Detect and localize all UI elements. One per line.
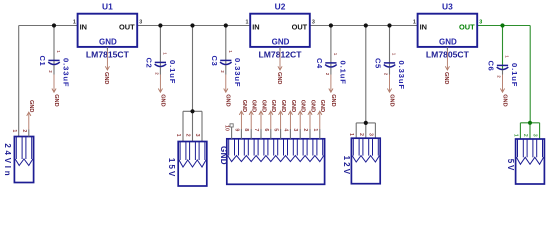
svg-text:GND: GND: [280, 100, 286, 112]
svg-text:10: 10: [224, 125, 230, 131]
pin 1 label 24VIn connector: [11, 129, 17, 132]
pin 1 label C1: [56, 50, 61, 53]
pin 1 label C6: [505, 55, 510, 58]
node C4 junction: [329, 23, 333, 27]
svg-text:IN: IN: [80, 23, 87, 32]
op-amp-style regulator U3 LM7805CT: [418, 2, 478, 60]
svg-text:GND: GND: [319, 100, 325, 112]
pin 8 label GND connector: [243, 128, 249, 131]
pin 2 label 24VIn connector: [21, 129, 27, 132]
pin 2 stub C6: [502, 70, 504, 75]
wire 15V conn riser: [192, 26, 194, 112]
pin 6 label GND connector: [263, 128, 269, 131]
svg-text:GND: GND: [290, 100, 296, 112]
pin 7 label GND connector: [253, 128, 259, 131]
svg-text:GND: GND: [300, 100, 306, 112]
ground net label GND at C6: [500, 75, 507, 107]
ground net label GND at C1: [52, 75, 59, 107]
wire 5V rail U3 out (green): [477, 25, 530, 27]
pin 1 label GND connector: [312, 128, 318, 131]
pin 2 label 12V connector: [358, 133, 364, 136]
pin 2 label GND connector: [302, 128, 308, 131]
pin 10 label GND connector: [224, 125, 230, 131]
connector GND header: [219, 139, 325, 185]
wire 15V conn pin stubs: [183, 111, 202, 141]
pin 6 stub GND connector: [270, 129, 272, 139]
pin 3 label U1: [139, 20, 142, 26]
wire C4 riser: [330, 26, 332, 67]
ground net label GND at GND connector pin 1: [318, 100, 326, 129]
pin 9 stub GND connector: [240, 129, 242, 139]
svg-text:3: 3: [479, 20, 482, 26]
svg-text:U3: U3: [442, 2, 453, 12]
svg-text:1: 1: [312, 128, 318, 131]
ground net label GND at GND connector pin 8: [249, 100, 257, 129]
svg-text:GND: GND: [219, 146, 228, 165]
pin 1 label U3: [413, 20, 416, 26]
pin 3 label 12V connector: [367, 133, 373, 136]
svg-text:GND: GND: [103, 72, 109, 84]
wire 12V conn pin stubs: [356, 123, 375, 138]
svg-text:0.33uF: 0.33uF: [397, 61, 406, 90]
pin 8 stub GND connector: [250, 129, 252, 139]
ground net label GND at C3: [224, 75, 231, 107]
node C2 junction: [158, 23, 162, 27]
ground net label GND at C5: [387, 75, 394, 107]
pin 3 label GND connector: [292, 128, 298, 131]
node 15V bus junction: [190, 109, 194, 113]
svg-text:0.33uF: 0.33uF: [61, 58, 70, 87]
svg-text:GND: GND: [53, 94, 59, 106]
pin 4 stub GND connector: [289, 129, 291, 139]
svg-text:9: 9: [233, 128, 239, 131]
svg-text:0.33uF: 0.33uF: [233, 58, 242, 87]
pin 1 label C4: [333, 53, 338, 56]
ground pin stub U2: [279, 47, 281, 51]
pin 5 stub GND connector: [280, 129, 282, 139]
pin 2 label C5: [384, 73, 389, 76]
svg-text:0.1uF: 0.1uF: [510, 63, 519, 87]
svg-text:OUT: OUT: [292, 23, 308, 32]
svg-text:3: 3: [367, 133, 373, 136]
wire 5V riser (green): [529, 26, 531, 123]
svg-text:1: 1: [512, 134, 518, 137]
ground net label GND at U1: [103, 51, 109, 85]
svg-text:1: 1: [348, 133, 354, 136]
pin 1 label C2: [162, 52, 167, 55]
node C6 junction (green): [500, 23, 504, 27]
svg-text:2: 2: [522, 134, 528, 137]
ground pin stub U1: [106, 47, 108, 51]
svg-text:7: 7: [253, 128, 259, 131]
svg-text:GND: GND: [439, 37, 457, 46]
svg-text:U2: U2: [275, 2, 286, 12]
svg-text:8: 8: [243, 128, 249, 131]
capacitor C1 0.33uF: [38, 56, 70, 88]
pin 3 label U3: [479, 20, 482, 26]
capacitor C2 0.1uF: [145, 58, 177, 85]
pin 2 stub 24VIn connector: [28, 130, 30, 137]
connector 24VIn header: [3, 137, 33, 183]
svg-text:GND: GND: [251, 100, 257, 112]
node C5 junction: [387, 23, 391, 27]
svg-text:5: 5: [273, 128, 279, 131]
svg-text:C5: C5: [374, 58, 383, 69]
pin 5 label GND connector: [273, 128, 279, 131]
pin 1 stub GND connector: [319, 129, 321, 139]
svg-text:0.1uF: 0.1uF: [338, 61, 347, 85]
node C1 junction: [52, 23, 56, 27]
ground net label GND at U2: [276, 51, 282, 85]
svg-text:4: 4: [282, 128, 288, 131]
svg-text:5V: 5V: [506, 159, 515, 171]
pin 1 label U2: [246, 20, 249, 26]
svg-text:C6: C6: [487, 61, 496, 72]
ground pin stub U3: [446, 47, 448, 51]
svg-text:GND: GND: [309, 100, 315, 112]
wire C2 riser: [159, 26, 161, 66]
capacitor C6 0.1uF: [487, 61, 519, 88]
wire C3 riser: [225, 26, 227, 64]
ground net label GND at GND connector pin 4: [288, 100, 296, 129]
svg-text:GND: GND: [260, 100, 266, 112]
pin 2 label C6: [497, 75, 502, 78]
wire 15V conn bus: [183, 110, 202, 112]
svg-text:1: 1: [175, 134, 181, 137]
svg-text:GND: GND: [225, 94, 231, 106]
pin 2 label C3: [220, 70, 225, 73]
pin 2 stub C4: [330, 68, 332, 75]
node 5V bus junction (green): [528, 121, 532, 125]
pin 3 label 5V connector: [532, 134, 538, 137]
node 12V riser junction: [364, 23, 368, 27]
svg-text:GND: GND: [388, 94, 394, 106]
pin 2 stub C3: [225, 65, 227, 75]
svg-text:1: 1: [11, 129, 17, 132]
pin 2 label 15V connector: [185, 134, 191, 137]
pin 1 label C3: [228, 50, 233, 53]
ground net label GND at GND connector pin 7: [259, 100, 267, 129]
svg-text:1: 1: [73, 20, 76, 26]
pin 2 label C4: [325, 73, 330, 76]
svg-text:3: 3: [312, 20, 315, 26]
wire 15V rail U1-U2: [137, 25, 250, 27]
svg-text:12V: 12V: [342, 156, 351, 175]
pin 1 label C5: [392, 53, 397, 56]
wire C1 riser: [53, 26, 55, 64]
svg-text:3: 3: [139, 20, 142, 26]
svg-text:GND: GND: [270, 100, 276, 112]
wire 24VIn pin1 riser: [18, 26, 20, 137]
connector 5V header: [506, 139, 544, 184]
pin 4 label GND connector: [282, 128, 288, 131]
svg-text:C3: C3: [210, 56, 219, 67]
svg-text:IN: IN: [420, 23, 427, 32]
connector 15V header: [167, 142, 207, 187]
pin 3 label U2: [312, 20, 315, 26]
ground net label GND at GND connector pin 2: [308, 100, 316, 129]
svg-text:3: 3: [532, 134, 538, 137]
pin 1 label U1: [73, 20, 76, 26]
wire C5 riser: [389, 26, 391, 67]
wire 5V conn pin stubs (green): [520, 123, 539, 139]
node 15V riser junction: [190, 23, 194, 27]
svg-text:3: 3: [292, 128, 298, 131]
pin 1 label 12V connector: [348, 133, 354, 136]
ground net label GND at GND connector pin 9: [239, 100, 247, 129]
op-amp-style regulator U2 LM7812CT: [250, 2, 310, 60]
capacitor C3 0.33uF: [210, 56, 242, 88]
svg-text:GND: GND: [159, 94, 165, 106]
ground net label GND at U3: [443, 51, 449, 85]
ground net label GND at GND connector pin 3: [298, 100, 306, 129]
svg-text:GND: GND: [99, 37, 117, 46]
svg-text:OUT: OUT: [119, 23, 135, 32]
op-amp-style regulator U1 LM7815CT: [78, 2, 138, 60]
svg-text:GND: GND: [443, 72, 449, 84]
svg-text:C4: C4: [315, 58, 324, 69]
svg-text:GND: GND: [276, 72, 282, 84]
wire 12V rail U2-U3: [310, 25, 418, 27]
svg-text:U1: U1: [102, 2, 113, 12]
svg-text:OUT: OUT: [459, 23, 475, 32]
svg-text:0.1uF: 0.1uF: [168, 60, 177, 84]
svg-text:6: 6: [263, 128, 269, 131]
svg-text:GND: GND: [28, 100, 34, 112]
svg-text:1: 1: [246, 20, 249, 26]
pin 1 label 15V connector: [175, 134, 181, 137]
ground net label GND at GND connector pin 6: [269, 100, 277, 129]
pin 2 stub GND connector: [309, 129, 311, 139]
pin 2 stub C1: [53, 65, 55, 75]
svg-text:1: 1: [413, 20, 416, 26]
wire 12V conn riser: [365, 26, 367, 123]
svg-text:2: 2: [21, 129, 27, 132]
svg-text:3: 3: [194, 134, 200, 137]
svg-text:2: 2: [302, 128, 308, 131]
pin 3 label 15V connector: [194, 134, 200, 137]
pin 2 stub C5: [389, 68, 391, 75]
ground net label GND at GND connector pin 5: [279, 100, 287, 129]
wire C6 riser (green): [502, 26, 504, 69]
svg-text:C1: C1: [38, 56, 47, 67]
pin 7 stub GND connector: [260, 129, 262, 139]
capacitor C4 0.1uF: [315, 58, 347, 85]
svg-text:GND: GND: [501, 94, 507, 106]
svg-text:2: 2: [358, 133, 364, 136]
svg-text:GND: GND: [241, 100, 247, 112]
node 12V bus junction: [364, 121, 368, 125]
wire 24V rail left: [19, 25, 78, 27]
svg-text:2: 2: [185, 134, 191, 137]
capacitor C5 0.33uF: [374, 58, 406, 90]
svg-text:GND: GND: [330, 94, 336, 106]
connector 12V header: [342, 138, 380, 184]
wire 12V conn bus: [356, 122, 375, 124]
pin 2 stub C2: [159, 67, 161, 75]
ground net label GND at 24VIn pin 2: [27, 100, 35, 130]
ground net label GND at C4: [329, 75, 336, 107]
node C3 junction: [224, 23, 228, 27]
svg-text:IN: IN: [252, 23, 259, 32]
pin 1 label 5V connector: [512, 134, 518, 137]
pin 2 label C1: [48, 70, 53, 73]
wire 5V conn bus (green): [520, 122, 539, 124]
svg-text:GND: GND: [272, 37, 290, 46]
svg-text:C2: C2: [145, 58, 154, 69]
pin 3 stub GND connector: [299, 129, 301, 139]
ground net label GND at C2: [158, 75, 165, 107]
pin 2 label 5V connector: [522, 134, 528, 137]
pin 9 label GND connector: [233, 128, 239, 131]
svg-text:15V: 15V: [167, 158, 176, 177]
pin 10 stub and NC marker GND connector: [230, 124, 233, 139]
pin 2 label C2: [155, 72, 160, 75]
